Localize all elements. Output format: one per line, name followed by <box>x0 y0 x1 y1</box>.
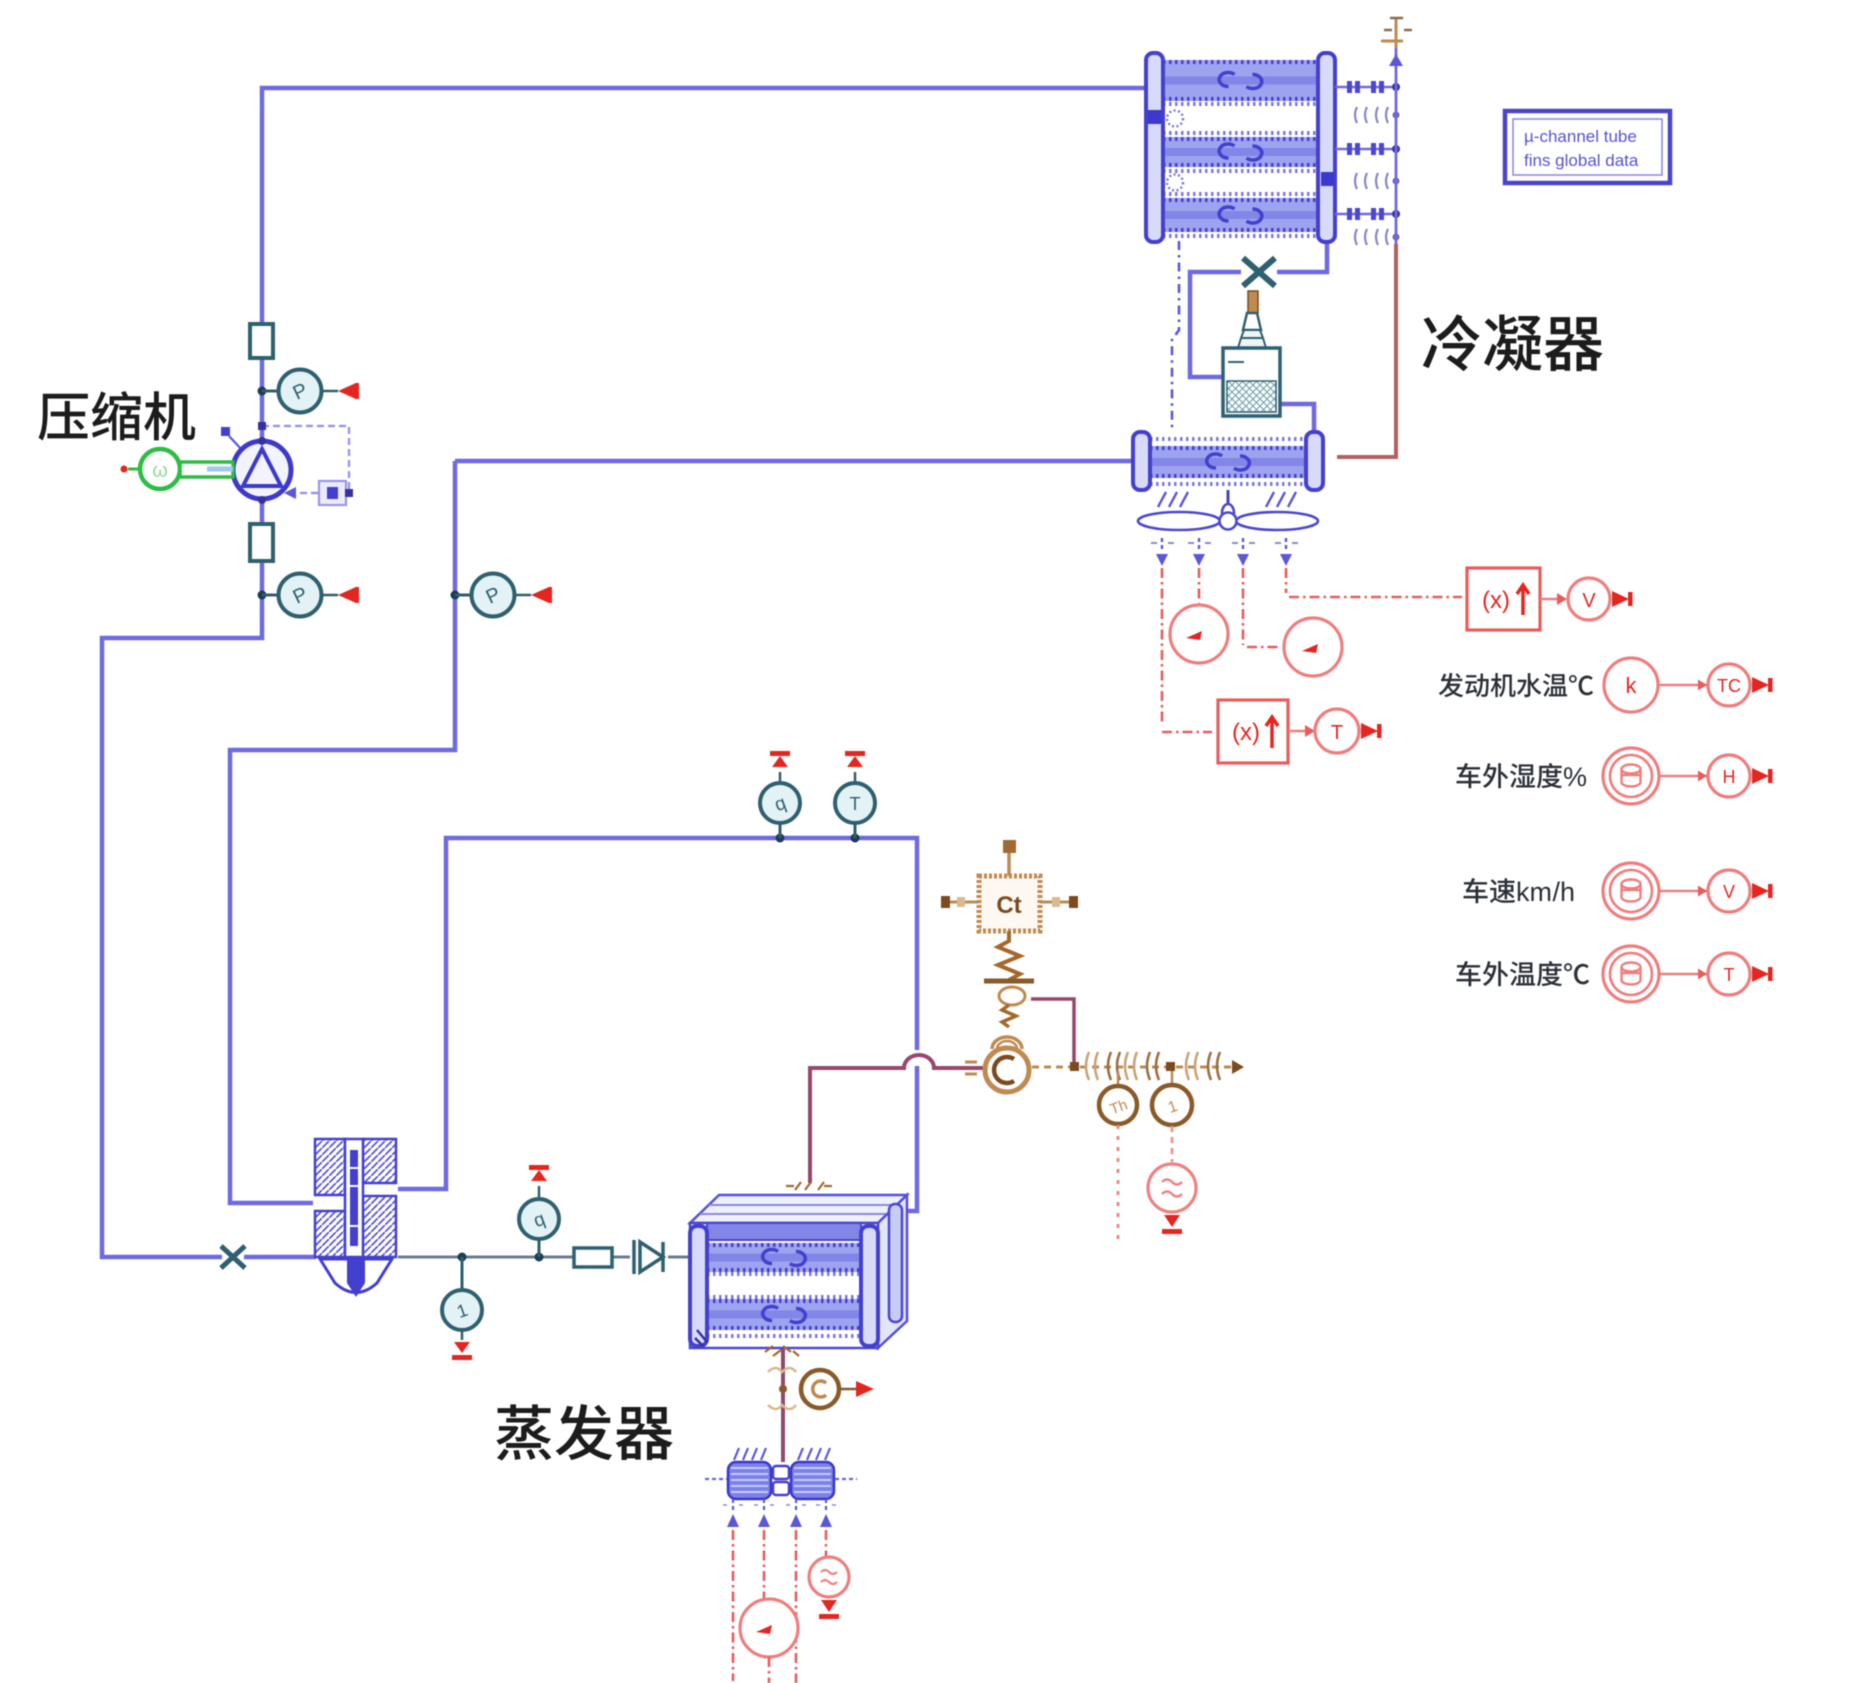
wire: suction riser from TXV left port <box>230 461 455 1203</box>
mass flow gauge q2 on evap line <box>776 834 785 843</box>
legend row H <box>1457 762 1588 792</box>
svg-text:(x): (x) <box>1482 587 1510 614</box>
wire: long pipe to subcooler left port <box>455 459 1133 464</box>
pressure gauge P1 (discharge) <box>258 387 267 396</box>
Ct block <box>979 876 1040 931</box>
condenser right header <box>1318 53 1335 242</box>
signal cap atop Ct <box>1003 840 1016 853</box>
atmospheric boundary symbol at top <box>1381 18 1403 48</box>
signal box (x)1 right <box>1467 568 1540 630</box>
evaporator front face <box>690 1223 878 1348</box>
svg-text:k: k <box>1516 877 1530 907</box>
wire: maroon condenser air column to subcooler right port <box>1337 244 1396 457</box>
condenser micro-channel stack <box>1163 60 1318 101</box>
evaporator top port ticks <box>786 1182 832 1190</box>
legend row T <box>1457 961 1590 986</box>
red sensor circle A <box>1284 618 1342 676</box>
svg-text:T: T <box>850 794 861 814</box>
svg-text:k: k <box>1626 673 1638 698</box>
svg-text:ω: ω <box>152 460 168 482</box>
V output circle <box>1568 578 1610 620</box>
Ct right arm <box>1040 901 1078 904</box>
svg-text:fins global data: fins global data <box>1524 151 1639 170</box>
wire: condenser outlet to receiver <box>1190 241 1327 377</box>
fan air outlet ports <box>1161 538 1163 552</box>
red sensor circle h2 <box>809 1557 849 1597</box>
subcooler right header <box>1306 432 1323 490</box>
svg-text:V: V <box>1582 590 1596 612</box>
T output circle <box>1315 709 1359 753</box>
Ct left arm <box>944 901 979 904</box>
svg-text:(x): (x) <box>1232 719 1260 746</box>
sight glass R1 inline <box>574 1248 612 1267</box>
svg-text:%: % <box>1563 762 1587 792</box>
diaphragm disc <box>999 987 1025 1005</box>
red sensor circle M2 <box>740 1599 798 1657</box>
red sensor circle M <box>1170 605 1228 663</box>
hand valve X2 (condenser outlet) <box>1243 258 1275 286</box>
wire: TXV right port up and across to evaporator right side <box>398 838 917 1226</box>
evaporator right face <box>878 1195 907 1348</box>
condenser label 冷凝器 <box>1423 314 1603 371</box>
motor W1 green drive <box>121 466 128 473</box>
wire: evaporator bottom to blower <box>781 1348 785 1462</box>
lever bar <box>984 979 1034 984</box>
brown P gauge at evaporator outlet <box>800 1388 801 1391</box>
blower top ticks <box>734 1448 739 1460</box>
compressor U1 circle-triangle <box>233 441 291 499</box>
muffler M2 (suction) <box>250 524 273 561</box>
wire: maroon from TXV-bulb disc to signal junction <box>1031 999 1074 1063</box>
svg-text:T: T <box>1724 965 1735 985</box>
air heat component under evaporator <box>768 1368 796 1409</box>
svg-text:h: h <box>1560 877 1575 907</box>
subcooler left header <box>1133 432 1150 490</box>
wire: compressor discharge to condenser top <box>262 88 1146 441</box>
muffler M1 (discharge) <box>250 324 273 358</box>
blower side dashes <box>705 1478 727 1480</box>
svg-text:TC: TC <box>1717 676 1741 696</box>
svg-text:m: m <box>1530 877 1553 907</box>
red dashed drop from Th <box>1117 1125 1120 1240</box>
wire: maroon evaporator feed from C valve <box>810 1055 983 1183</box>
wire: receiver outlet to subcooler <box>1280 404 1314 433</box>
red drop to h sensor <box>1171 1126 1174 1162</box>
legend row TC <box>1439 673 1593 697</box>
blower unit <box>728 1462 771 1499</box>
svg-text:µ-channel tube: µ-channel tube <box>1524 127 1637 146</box>
global data box <box>1505 111 1670 183</box>
evaporator label 蒸发器 <box>496 1404 672 1460</box>
condenser left header <box>1146 53 1163 242</box>
svg-text:T: T <box>1331 722 1343 744</box>
evaporator bottom port ticks <box>765 1346 799 1356</box>
red dash-dot signal lines from fan <box>1162 568 1212 732</box>
pressure gauge P3 (riser) <box>451 591 460 600</box>
evaporator right header <box>861 1226 878 1346</box>
spring under Ct <box>998 931 1020 980</box>
small spring <box>1002 1005 1016 1027</box>
wire: blue dash-dot condenser-subcooler thermal link <box>1172 241 1179 430</box>
brown sensor circle Th <box>1117 1071 1120 1086</box>
hand valve X1 on liquid line <box>221 1246 245 1268</box>
evaporator top face <box>690 1195 907 1223</box>
blower air ports <box>732 1499 734 1512</box>
receiver drier R2 <box>1248 291 1258 313</box>
svg-text:Ct: Ct <box>996 892 1021 919</box>
subcooler row <box>1150 446 1306 478</box>
condenser fan <box>1227 490 1230 510</box>
temperature gauge T on evap line <box>851 834 860 843</box>
signal box (x)1 left <box>1218 700 1288 763</box>
condenser air column line <box>1395 41 1398 244</box>
pressure gauge P2 (suction) <box>258 591 267 600</box>
compressor feedback dashed loop <box>262 426 349 493</box>
check valve CV1 <box>634 1240 663 1274</box>
brown dashed signal line right of C <box>1032 1066 1232 1069</box>
fan heat ticks <box>1158 492 1166 507</box>
wire: compressor suction down-left-bottom run <box>102 500 262 1257</box>
evaporator left header <box>690 1226 707 1346</box>
compressor speed input dash stub <box>221 427 230 436</box>
C ball valve <box>992 1037 1022 1049</box>
wire: slate liquid line TXV to evaporator <box>398 1256 692 1259</box>
label: 压缩机 (compressor) <box>38 391 195 441</box>
red dash lines under blower <box>732 1530 735 1681</box>
brown sensor circle 1 <box>1171 1071 1174 1085</box>
expansion valve TXV body <box>315 1139 396 1257</box>
enthalpy gauge 1 below line <box>461 1257 464 1290</box>
TXV funnel bottom <box>320 1259 392 1293</box>
mass flow gauge q (liquid line) <box>538 1240 541 1257</box>
svg-text:H: H <box>1723 767 1736 787</box>
legend row V <box>1464 877 1576 907</box>
svg-text:V: V <box>1723 882 1735 902</box>
condenser air branches <box>1335 86 1392 89</box>
